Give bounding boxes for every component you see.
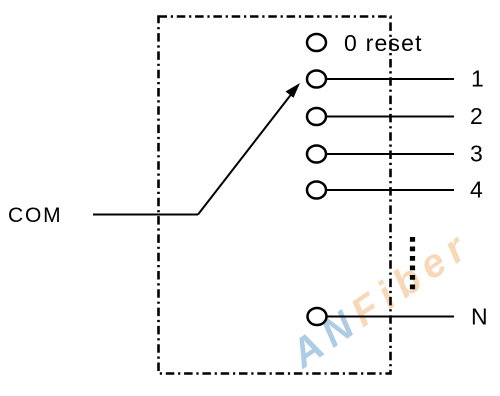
continuation dotted line bbox=[410, 237, 415, 290]
port 2 circle bbox=[307, 108, 326, 125]
watermark ANFiber bbox=[282, 222, 479, 377]
wire port 1 bbox=[327, 78, 454, 80]
wire port 3 bbox=[327, 153, 454, 155]
switch enclosure dash-dot box bbox=[159, 17, 391, 374]
port N circle bbox=[308, 308, 327, 325]
svg-text:0 reset: 0 reset bbox=[344, 30, 423, 56]
port 0 reset circle bbox=[307, 34, 326, 51]
svg-text:ANFiber: ANFiber bbox=[282, 222, 479, 377]
switch wiper arrow bbox=[198, 92, 293, 215]
port 1 circle bbox=[307, 71, 326, 88]
svg-text:N: N bbox=[471, 304, 488, 330]
svg-text:COM: COM bbox=[8, 204, 62, 227]
port 3 circle bbox=[307, 146, 326, 163]
port 4 circle bbox=[307, 182, 326, 199]
svg-text:1: 1 bbox=[471, 66, 484, 92]
svg-text:2: 2 bbox=[470, 103, 483, 129]
svg-text:4: 4 bbox=[470, 177, 483, 203]
wire port 4 bbox=[327, 189, 454, 191]
wire port N bbox=[328, 316, 455, 318]
wire COM lead bbox=[93, 214, 198, 216]
svg-text:3: 3 bbox=[470, 141, 483, 167]
wire port 2 bbox=[327, 116, 454, 118]
